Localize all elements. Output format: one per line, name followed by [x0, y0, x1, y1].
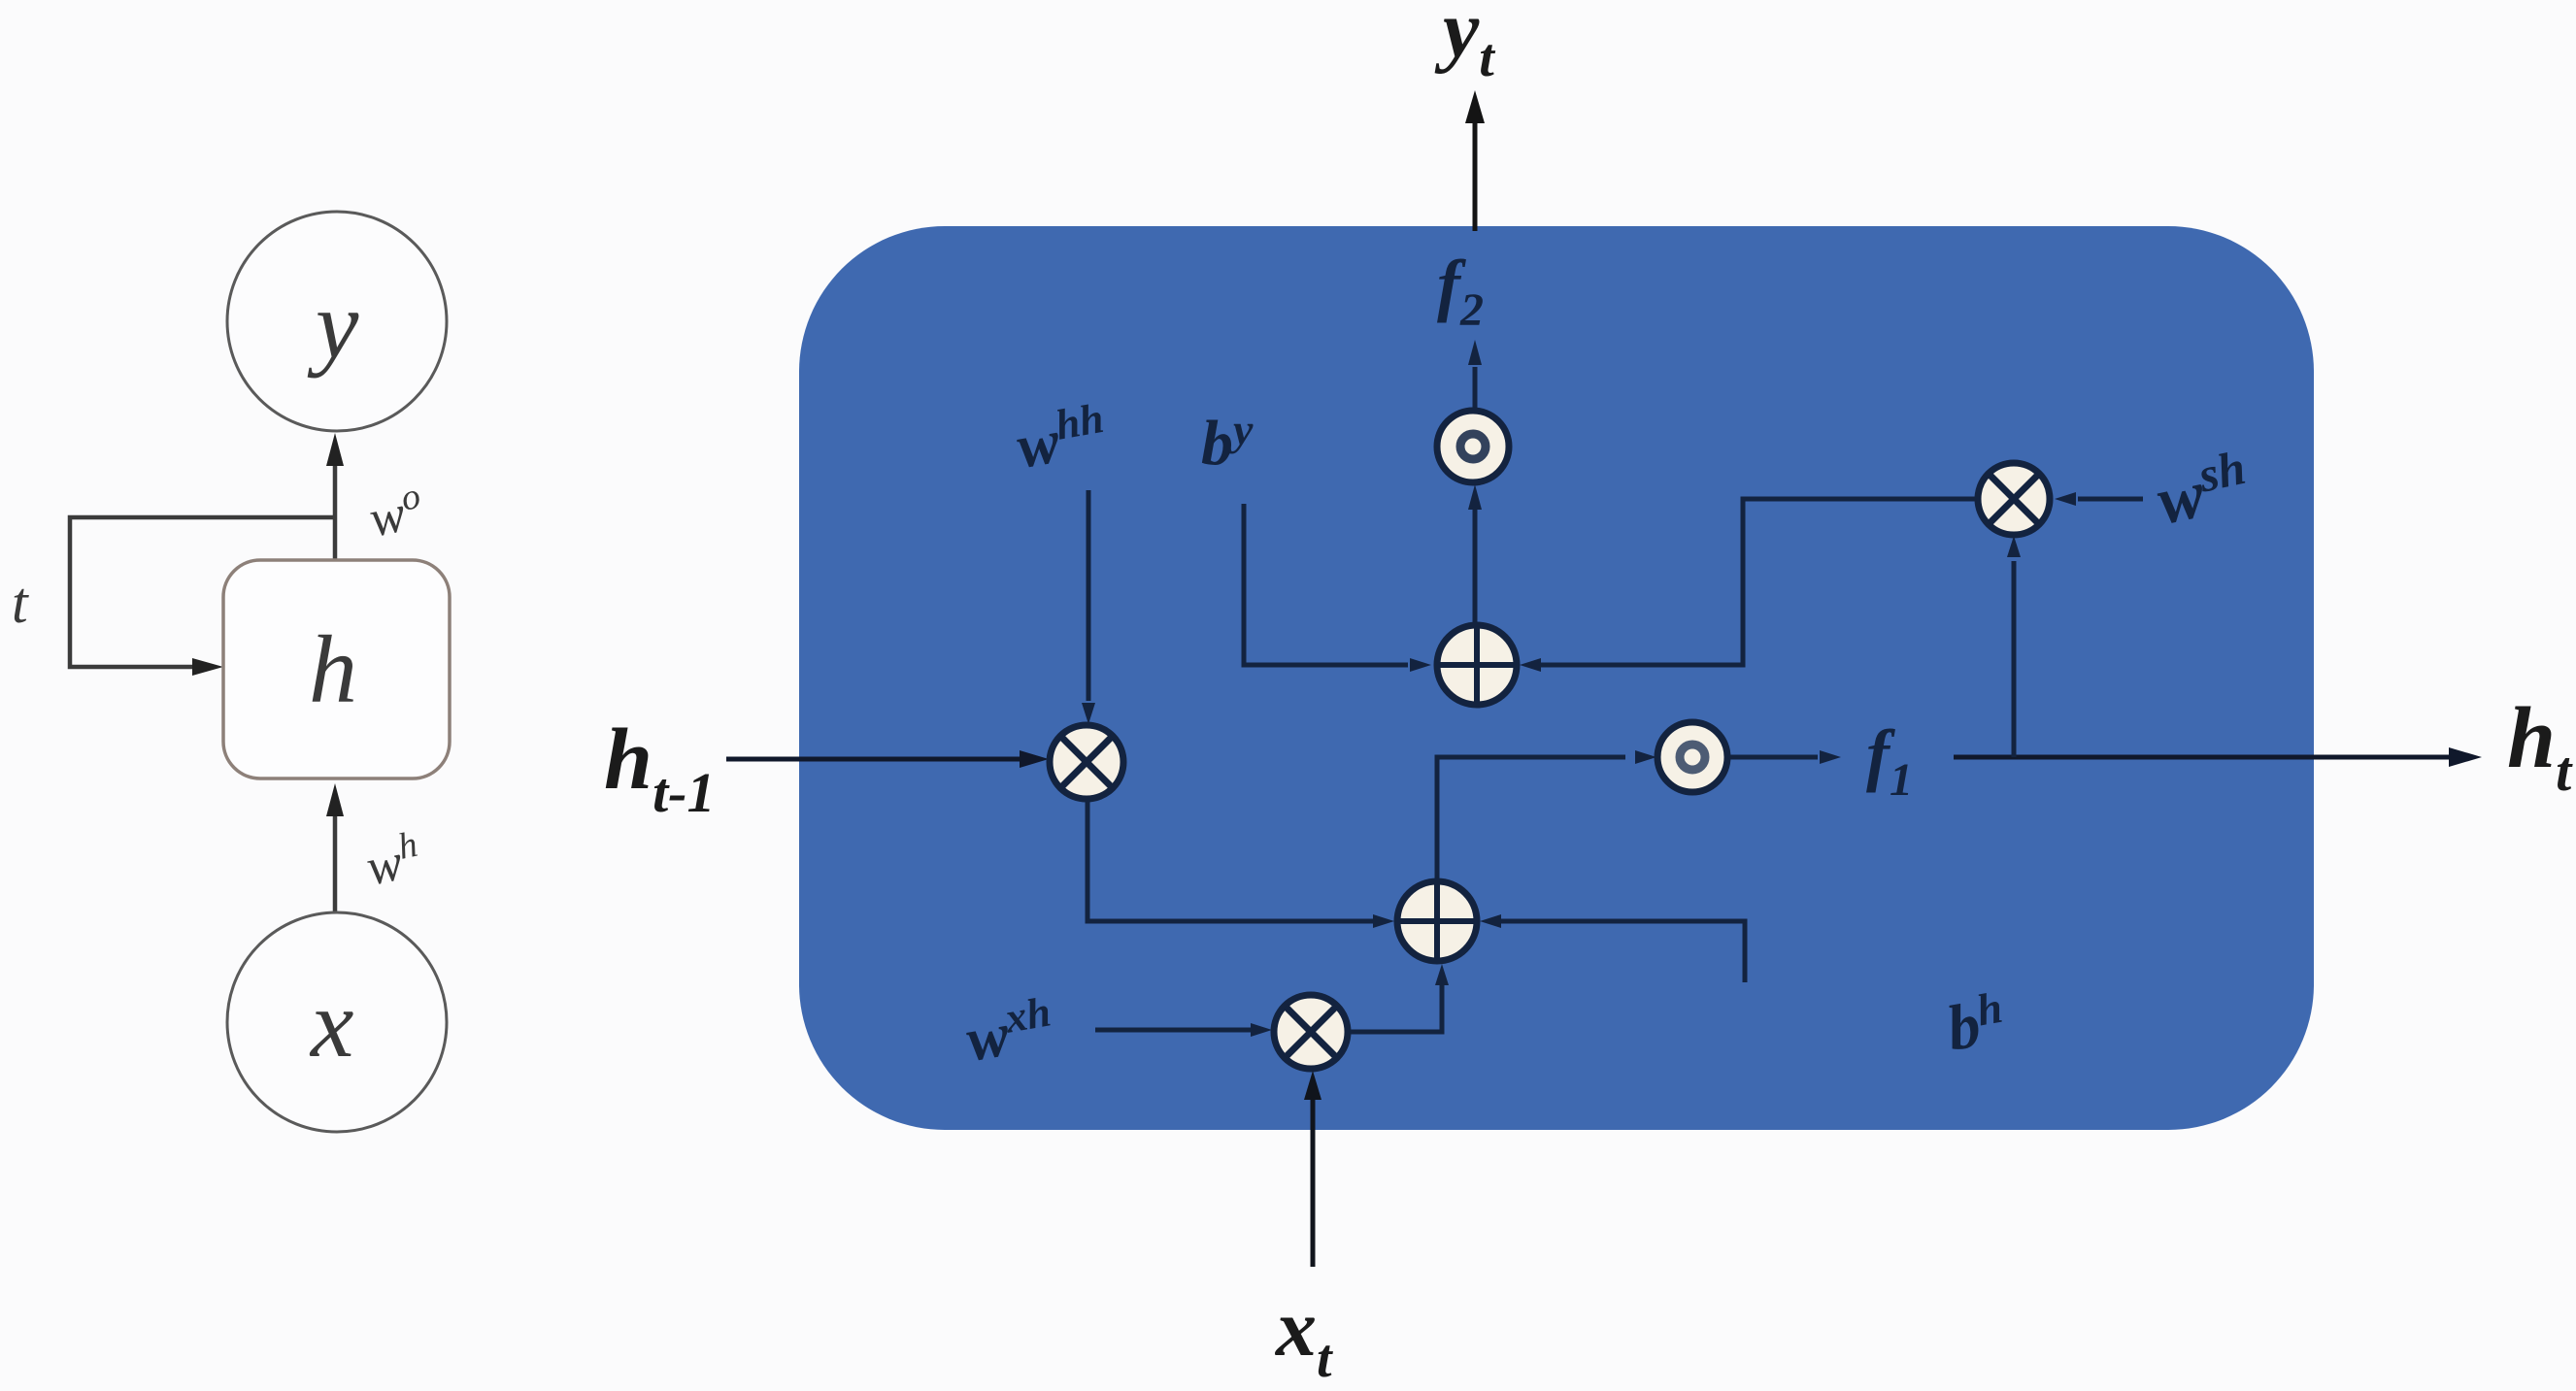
wire b^y to add A — [1244, 504, 1431, 672]
op times C (multiply circle top right) — [1978, 463, 2050, 535]
node y (left diagram output circle) — [227, 212, 447, 431]
label b^h — [1941, 982, 2010, 1065]
node x (left diagram input circle) — [227, 912, 447, 1132]
wire f_1 to h_t — [1954, 747, 2482, 767]
box h (hidden state) — [223, 560, 450, 778]
wire branch f_1 to times C arrow — [2007, 536, 2021, 757]
wire h_t-1 to times A arrow — [726, 750, 1049, 768]
op times A (multiply circle left) — [1050, 725, 1123, 799]
wire add A to hadamard A arrow — [1468, 484, 1482, 622]
label y_t — [1434, 0, 1495, 88]
op times B (multiply circle bottom) — [1274, 995, 1348, 1069]
label x_t — [1274, 1283, 1333, 1389]
op hadamard B (circle-o middle) — [1657, 722, 1727, 792]
label b^y — [1201, 405, 1254, 479]
label t — [12, 571, 29, 635]
label w^o — [363, 476, 428, 548]
label h_t — [2507, 690, 2573, 803]
svg-text:y: y — [307, 271, 359, 379]
wire times B to add B — [1350, 964, 1449, 1032]
wire w^sh to times C arrow — [2055, 492, 2143, 506]
wire times A to add B — [1087, 800, 1394, 928]
feedback loop wire t — [70, 517, 335, 676]
op add B (plus circle lower) — [1395, 879, 1479, 963]
op hadamard A (circle-o) — [1437, 411, 1509, 482]
label h_t-1 — [604, 712, 716, 824]
svg-text:x: x — [309, 970, 353, 1077]
label f_2 — [1437, 246, 1484, 336]
op add A (plus circle upper) — [1435, 623, 1519, 707]
wire x_t to times B arrow — [1304, 1071, 1321, 1267]
label w^xh — [960, 987, 1058, 1074]
svg-text:t: t — [12, 571, 29, 635]
label w^h — [360, 824, 425, 897]
wire b^h to add B — [1480, 914, 1745, 982]
label w^sh — [2150, 440, 2257, 540]
wire add B to hadamard B — [1437, 750, 1656, 878]
wire times C to add A — [1520, 499, 1977, 672]
label f_1 — [1866, 715, 1913, 806]
wire hadamard B to f_1 arrow — [1728, 750, 1841, 764]
wire h to y with arrow — [326, 433, 344, 560]
wire x to h with arrow — [326, 783, 344, 911]
wire w^xh to times B arrow — [1095, 1023, 1272, 1037]
wire w^hh to times A arrow — [1082, 490, 1095, 724]
svg-text:h: h — [309, 615, 357, 723]
wire y_t output arrow — [1465, 90, 1485, 231]
wire hadamard A to f_2 arrow — [1468, 340, 1482, 408]
label w^hh — [1011, 394, 1111, 481]
RNN cell blue box — [799, 226, 2314, 1130]
